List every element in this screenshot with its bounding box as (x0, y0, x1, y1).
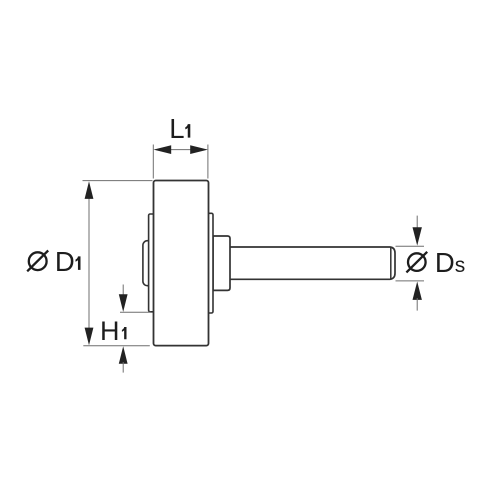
H1 extension line upper (120, 311, 151, 313)
Ds arrow down (413, 227, 422, 245)
Ds arrow upper leader (416, 216, 418, 229)
D1 dimension line (88, 196, 90, 330)
H1 arrow upper leader (122, 285, 124, 297)
Ds arrow up (413, 282, 422, 300)
L1 extension line right (207, 145, 209, 179)
side plate left (149, 214, 157, 312)
L1 extension line left (152, 145, 154, 179)
svg-text:D: D (435, 247, 455, 278)
Ds extension line top (396, 245, 425, 247)
D1 extension line bottom (83, 345, 150, 347)
H1 arrow lower leader (122, 362, 124, 373)
D1 arrow up (85, 181, 94, 199)
shaft chamfer line (390, 247, 392, 279)
label D1 diameter symbol (29, 252, 47, 270)
H1 arrow up (119, 346, 128, 364)
L1 arrow left (154, 145, 172, 154)
svg-text:L: L (169, 113, 184, 144)
D1 extension line top (83, 180, 153, 182)
L1 arrow right (190, 145, 208, 154)
hub left (143, 241, 153, 286)
L1 dimension line (171, 149, 191, 151)
Ds extension line bottom (396, 280, 425, 282)
svg-text:H: H (100, 316, 120, 346)
Ds arrow lower leader (416, 298, 418, 311)
label Ds diameter symbol (408, 253, 426, 271)
svg-text:D: D (55, 246, 75, 277)
hub right (213, 236, 230, 290)
side plate right (205, 213, 213, 313)
H1 arrow down (119, 294, 128, 312)
shaft (230, 247, 395, 279)
D1 arrow down (85, 328, 94, 346)
svg-text:s: s (455, 254, 466, 277)
wheel body (154, 181, 209, 346)
